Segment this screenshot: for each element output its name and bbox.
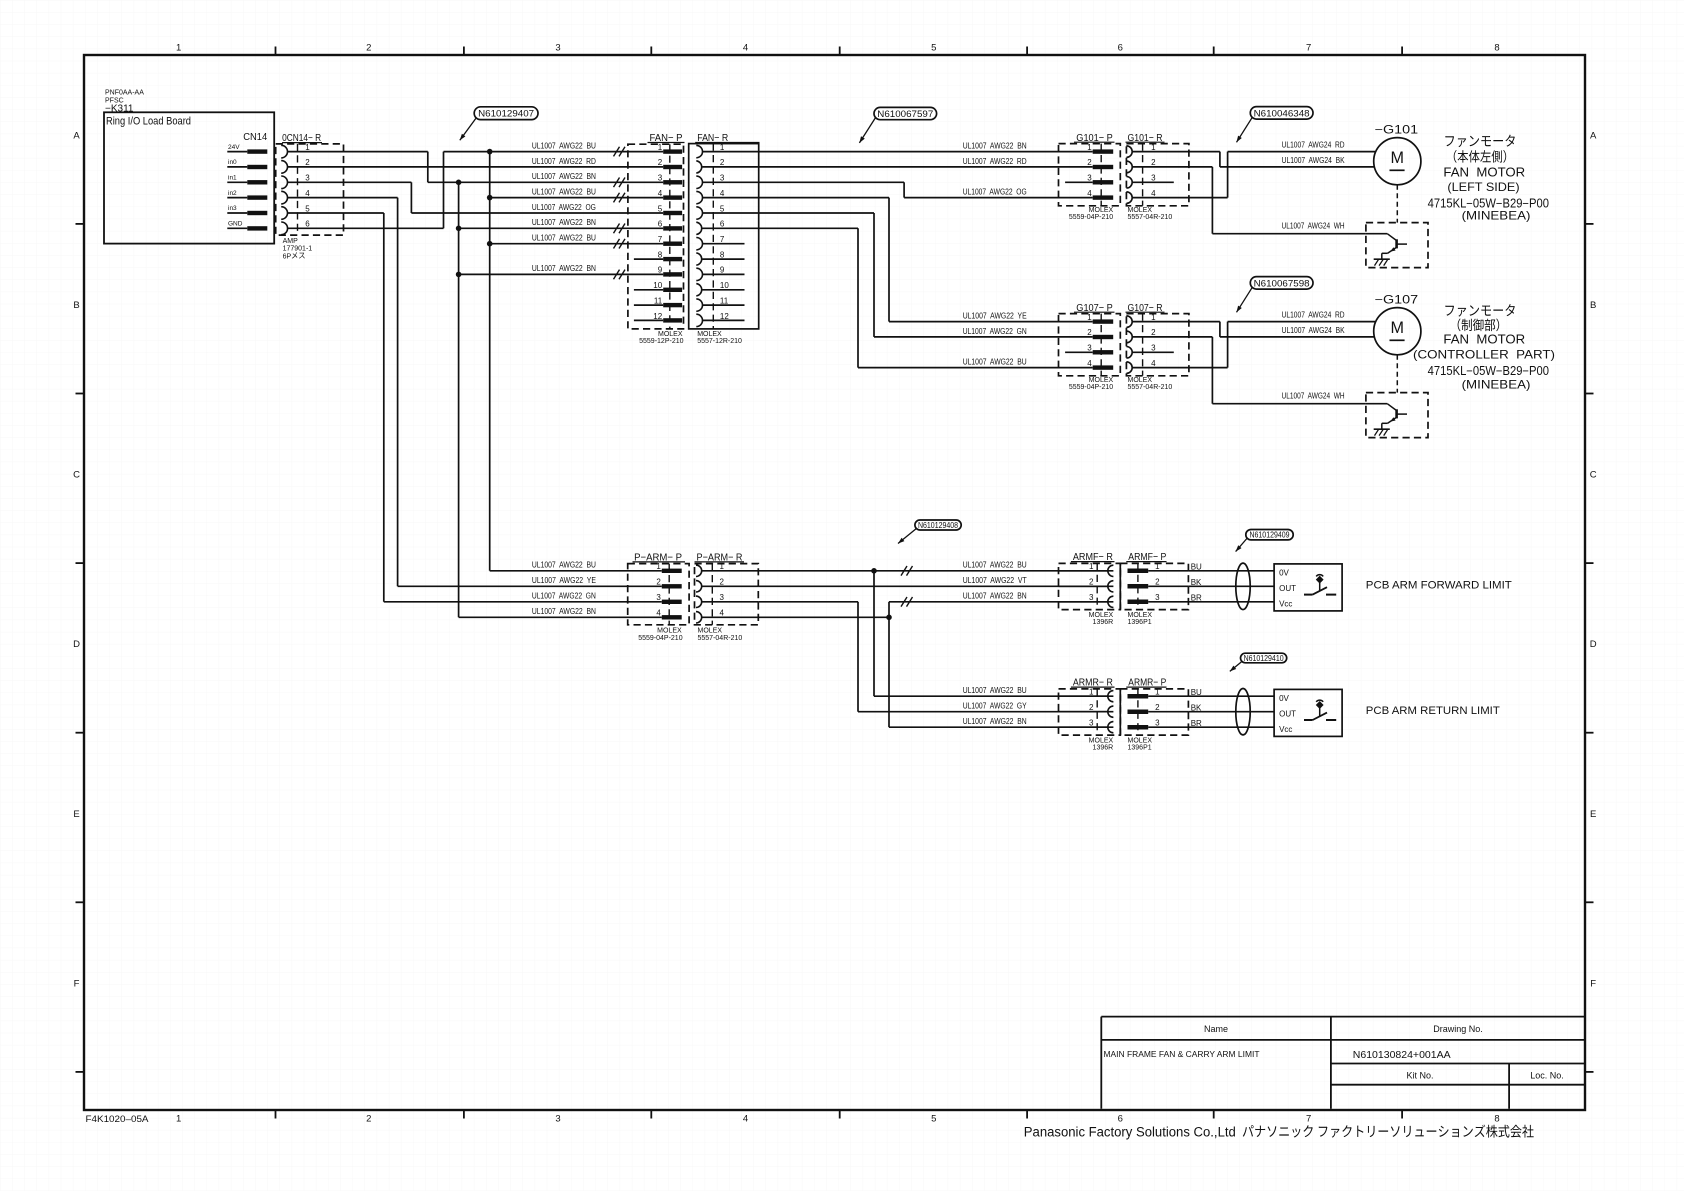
svg-text:UL1007 AWG22 VT: UL1007 AWG22 VT — [963, 576, 1027, 585]
svg-text:9: 9 — [720, 266, 725, 275]
svg-text:1: 1 — [720, 562, 725, 571]
wire FAN-R pin6 down to G107-P pin4 BU — [759, 228, 1093, 367]
svg-text:UL1007 AWG22 BU: UL1007 AWG22 BU — [963, 357, 1027, 366]
wire G107-R pin1 jog to BK — [1189, 322, 1375, 337]
svg-text:2: 2 — [658, 158, 663, 167]
wire CN14 pin1 24V to BN bus jog — [288, 152, 428, 183]
svg-text:UL1007 AWG22 RD: UL1007 AWG22 RD — [532, 157, 596, 166]
wire CN14 pin6 GND up to row1 BU — [288, 152, 664, 229]
svg-text:MOLEX: MOLEX — [1089, 612, 1114, 619]
motor G101 description text — [1428, 135, 1549, 223]
svg-text:N610129408: N610129408 — [918, 521, 958, 530]
svg-text:UL1007 AWG22 BU: UL1007 AWG22 BU — [963, 686, 1027, 695]
svg-text:AMP: AMP — [283, 238, 299, 245]
svg-text:UL1007 AWG22 GN: UL1007 AWG22 GN — [532, 592, 596, 601]
sensor box ARMF 0V OUT Vcc — [1274, 564, 1342, 611]
svg-text:3: 3 — [555, 1114, 560, 1125]
svg-text:1: 1 — [1087, 143, 1092, 152]
svg-text:MOLEX: MOLEX — [1128, 612, 1153, 619]
svg-text:UL1007 AWG22 OG: UL1007 AWG22 OG — [963, 187, 1027, 196]
svg-text:(LEFT SIDE): (LEFT SIDE) — [1447, 180, 1519, 194]
svg-text:MOLEX: MOLEX — [658, 331, 683, 338]
svg-text:5559-04P-210: 5559-04P-210 — [1069, 214, 1113, 221]
ref tag N610129409 — [1236, 530, 1294, 552]
svg-text:4: 4 — [720, 609, 725, 618]
row letters left — [73, 130, 80, 989]
svg-text:1: 1 — [176, 43, 181, 54]
svg-text:−K311: −K311 — [105, 104, 134, 115]
wire labels UL1007 AWG24 at motor G107 — [1282, 311, 1346, 401]
svg-text:6: 6 — [720, 220, 725, 229]
wire G101-R pin4 jog to RD — [1189, 152, 1375, 198]
svg-text:1: 1 — [720, 143, 725, 152]
svg-text:6: 6 — [658, 220, 663, 229]
sensor box ARMR 0V OUT Vcc — [1274, 689, 1342, 736]
svg-text:UL1007 AWG22 BN: UL1007 AWG22 BN — [963, 717, 1027, 726]
svg-text:5559-04P-210: 5559-04P-210 — [638, 635, 682, 642]
svg-text:UL1007 AWG22 BU: UL1007 AWG22 BU — [532, 187, 596, 196]
svg-text:3: 3 — [1155, 719, 1160, 728]
svg-text:FAN MOTOR: FAN MOTOR — [1443, 333, 1525, 347]
svg-text:4: 4 — [743, 43, 748, 54]
svg-text:1: 1 — [1155, 562, 1160, 571]
svg-text:24V: 24V — [228, 144, 240, 151]
svg-text:4: 4 — [305, 189, 310, 198]
cable ellipse ARMR — [1236, 689, 1250, 735]
svg-text:5557-04R-210: 5557-04R-210 — [1128, 384, 1173, 391]
svg-text:MOLEX: MOLEX — [698, 627, 723, 634]
svg-text:UL1007 AWG22 BU: UL1007 AWG22 BU — [532, 141, 596, 150]
ground in G107 box — [1374, 428, 1390, 430]
svg-text:2: 2 — [1089, 703, 1094, 712]
svg-text:UL1007 AWG22 BU: UL1007 AWG22 BU — [963, 561, 1027, 570]
wire BU bus to FAN-P pin4 — [490, 197, 664, 199]
svg-text:N610067597: N610067597 — [877, 109, 933, 120]
svg-text:5: 5 — [720, 204, 725, 213]
svg-text:5: 5 — [931, 43, 936, 54]
svg-text:7: 7 — [720, 235, 725, 244]
connector FAN-R (MOLEX 5557-12R-210) — [689, 132, 760, 345]
connector FAN-P (MOLEX 5559-12P-210) — [628, 132, 685, 345]
connector G107-P (MOLEX 5559-04P-210) — [1059, 302, 1121, 391]
svg-text:in2: in2 — [228, 190, 237, 197]
ref tag N610129408 — [898, 520, 961, 544]
svg-text:3: 3 — [1087, 344, 1092, 353]
svg-text:N610129410: N610129410 — [1244, 654, 1284, 663]
svg-text:F: F — [74, 978, 80, 989]
connector P-ARM-R (MOLEX 5557-04R-210) — [695, 551, 759, 642]
svg-text:MOLEX: MOLEX — [697, 331, 722, 338]
svg-text:UL1007 AWG22 BN: UL1007 AWG22 BN — [532, 218, 596, 227]
board -K311 Ring I/O Load Board — [104, 90, 274, 244]
svg-text:5: 5 — [658, 204, 663, 213]
svg-text:4: 4 — [743, 1114, 748, 1125]
wire BU bus to P-ARM pin1 — [490, 570, 662, 572]
connector G101-P (MOLEX 5559-04P-210) — [1059, 132, 1121, 221]
svg-text:FAN MOTOR: FAN MOTOR — [1443, 166, 1525, 180]
svg-text:2: 2 — [720, 578, 725, 587]
svg-text:(MINEBEA): (MINEBEA) — [1462, 377, 1531, 391]
svg-text:A: A — [1590, 130, 1597, 141]
svg-text:N610046348: N610046348 — [1254, 108, 1310, 119]
svg-text:UL1007 AWG22 YE: UL1007 AWG22 YE — [963, 311, 1027, 320]
svg-text:MOLEX: MOLEX — [657, 627, 682, 634]
svg-text:3: 3 — [720, 174, 725, 183]
wire CN14 pin4 to P-ARM pin2 — [398, 585, 662, 587]
svg-text:D: D — [1590, 639, 1597, 650]
svg-text:7: 7 — [658, 235, 663, 244]
limit switch symbol ARMF — [1304, 575, 1336, 595]
svg-text:3: 3 — [305, 174, 310, 183]
svg-text:2: 2 — [656, 578, 661, 587]
wire CN14 pin2 to FAN-P pin2 RD — [288, 166, 664, 168]
wire labels UL1007 AWG22 at FAN-P — [532, 141, 596, 273]
svg-text:N610067598: N610067598 — [1254, 278, 1310, 289]
svg-text:MOLEX: MOLEX — [1089, 377, 1114, 384]
svg-text:6: 6 — [1118, 1114, 1123, 1125]
svg-text:E: E — [1590, 809, 1596, 820]
svg-text:4: 4 — [1087, 359, 1092, 368]
wire CN14 pin4 down to P-ARM pin2 — [288, 198, 398, 587]
svg-text:3: 3 — [1151, 344, 1156, 353]
svg-text:OUT: OUT — [1279, 584, 1296, 593]
ref tag N610046348 — [1237, 107, 1314, 143]
svg-text:5: 5 — [305, 204, 310, 213]
wire P-ARM pin3 GN down to ARMR-R pin2 GY — [758, 602, 1113, 712]
svg-text:10: 10 — [720, 281, 729, 290]
svg-text:2: 2 — [1155, 703, 1160, 712]
svg-text:2: 2 — [1087, 158, 1092, 167]
svg-text:6: 6 — [305, 220, 310, 229]
svg-text:2: 2 — [1087, 328, 1092, 337]
svg-text:UL1007 AWG24 RD: UL1007 AWG24 RD — [1282, 311, 1345, 320]
svg-text:UL1007 AWG22 BU: UL1007 AWG22 BU — [532, 561, 596, 570]
svg-text:5557-04R-210: 5557-04R-210 — [698, 635, 743, 642]
svg-text:12: 12 — [720, 312, 729, 321]
svg-text:4: 4 — [1087, 189, 1092, 198]
svg-text:1396P1: 1396P1 — [1128, 745, 1152, 752]
wire FAN-R pin2 to G101-P pin2 RD — [759, 166, 1093, 168]
svg-text:N610129409: N610129409 — [1250, 531, 1290, 540]
svg-text:UL1007 AWG22 YE: UL1007 AWG22 YE — [532, 576, 596, 585]
svg-text:177901-1: 177901-1 — [283, 246, 313, 253]
cable crossing marks at FAN-P — [614, 147, 626, 279]
svg-text:MOLEX: MOLEX — [1128, 207, 1153, 214]
svg-text:2: 2 — [305, 158, 310, 167]
svg-text:UL1007 AWG22 BN: UL1007 AWG22 BN — [963, 592, 1027, 601]
svg-text:1: 1 — [1087, 313, 1092, 322]
svg-text:Drawing No.: Drawing No. — [1433, 1024, 1483, 1034]
wire G101-R pin2 to WH transistor — [1189, 167, 1366, 234]
BN bus vertical — [456, 180, 462, 618]
svg-text:E: E — [73, 809, 79, 820]
svg-text:2: 2 — [720, 158, 725, 167]
ground in G101 box — [1374, 258, 1390, 260]
svg-text:(MINEBEA): (MINEBEA) — [1462, 209, 1531, 223]
svg-text:UL1007 AWG24 BK: UL1007 AWG24 BK — [1282, 156, 1346, 165]
svg-text:1: 1 — [1155, 688, 1160, 697]
svg-text:7: 7 — [1306, 1114, 1311, 1125]
svg-text:in0: in0 — [228, 159, 237, 166]
svg-text:OUT: OUT — [1279, 710, 1296, 719]
wire CN14 pin5 to P-ARM pin3 — [384, 601, 662, 603]
svg-text:1: 1 — [305, 143, 310, 152]
svg-text:1396R: 1396R — [1093, 745, 1114, 752]
wire FAN-R pin3 jog to G101-P pin4 OG — [759, 182, 1093, 197]
svg-text:12: 12 — [653, 312, 662, 321]
svg-text:MOLEX: MOLEX — [1128, 377, 1153, 384]
svg-text:GND: GND — [228, 221, 243, 228]
svg-text:M: M — [1391, 318, 1405, 337]
row letters right — [1590, 130, 1597, 989]
svg-text:C: C — [1590, 470, 1597, 481]
connector G101-R (MOLEX 5557-04R-210) — [1126, 132, 1189, 221]
svg-text:UL1007 AWG22 BN: UL1007 AWG22 BN — [532, 607, 596, 616]
wire CN14 pin3 to OG jog — [288, 182, 412, 213]
ref tag N610067597 — [859, 107, 936, 142]
svg-text:N610129407: N610129407 — [478, 109, 534, 120]
wire G107-R pin4 jog to RD — [1189, 322, 1375, 368]
svg-text:7: 7 — [1306, 43, 1311, 54]
svg-text:UL1007 AWG24 WH: UL1007 AWG24 WH — [1282, 392, 1345, 401]
thermistor box of G101 (internal transistor) — [1366, 223, 1428, 268]
svg-text:MOLEX: MOLEX — [1128, 738, 1153, 745]
motor G107 description text — [1413, 304, 1555, 391]
svg-text:4: 4 — [1151, 359, 1156, 368]
svg-text:B: B — [73, 300, 79, 311]
svg-text:1: 1 — [1089, 688, 1094, 697]
svg-text:3: 3 — [1151, 174, 1156, 183]
svg-text:11: 11 — [720, 296, 729, 305]
svg-text:5557-04R-210: 5557-04R-210 — [1128, 214, 1173, 221]
connector ARMR-R (MOLEX 1396R) — [1059, 677, 1121, 752]
BU bus vertical — [487, 149, 493, 571]
svg-text:PNF0AA-AA: PNF0AA-AA — [105, 90, 144, 97]
wire P-ARM pin4 BN to branch — [758, 602, 1113, 620]
wire labels at G101-P — [963, 141, 1027, 196]
wire labels at ARMF-R — [963, 561, 1027, 601]
svg-text:MOLEX: MOLEX — [1089, 207, 1114, 214]
svg-text:−G107: −G107 — [1375, 294, 1419, 306]
ref tag N610129407 — [460, 107, 538, 141]
wire BU bus to FAN-P pin7 — [490, 243, 664, 245]
fan motor G101 — [1374, 124, 1421, 222]
wire labels at P-ARM-P — [532, 561, 596, 617]
svg-text:8: 8 — [658, 250, 663, 259]
wire row3 BN to FAN-P pin3 — [428, 181, 663, 183]
svg-text:1: 1 — [1151, 143, 1156, 152]
column numbers top — [176, 43, 1500, 54]
connector CN14 on board — [227, 132, 267, 231]
wire BN branch down to ARMR-R pin3 — [889, 617, 1113, 727]
svg-text:2: 2 — [366, 43, 371, 54]
svg-text:UL1007 AWG24 BK: UL1007 AWG24 BK — [1282, 326, 1346, 335]
limit switch symbol ARMR — [1304, 700, 1336, 720]
svg-text:(CONTROLLER PART): (CONTROLLER PART) — [1413, 347, 1555, 361]
svg-text:in1: in1 — [228, 175, 237, 182]
svg-text:MOLEX: MOLEX — [1089, 738, 1114, 745]
svg-text:Kit No.: Kit No. — [1406, 1071, 1433, 1081]
cable ellipse ARMF — [1236, 563, 1250, 609]
wire BU branch down to ARMR-R pin1 — [874, 571, 1113, 696]
svg-text:UL1007 AWG22 BU: UL1007 AWG22 BU — [532, 234, 596, 243]
svg-text:UL1007 AWG22 BN: UL1007 AWG22 BN — [963, 141, 1027, 150]
svg-text:1396R: 1396R — [1093, 619, 1114, 626]
svg-text:3: 3 — [1155, 593, 1160, 602]
svg-text:1: 1 — [176, 1114, 181, 1125]
svg-text:6: 6 — [1118, 43, 1123, 54]
connector ARMR-P (MOLEX 1396P1) — [1120, 677, 1188, 752]
svg-text:9: 9 — [658, 266, 663, 275]
svg-text:N610130824+001AA: N610130824+001AA — [1353, 1049, 1451, 1061]
wire BN bus to FAN-P pin9 — [459, 273, 664, 275]
svg-text:UL1007 AWG22 GN: UL1007 AWG22 GN — [963, 327, 1027, 336]
svg-text:2: 2 — [1155, 578, 1160, 587]
svg-text:4715KL−05W−B29−P00: 4715KL−05W−B29−P00 — [1428, 364, 1549, 378]
svg-text:Ring I/O Load Board: Ring I/O Load Board — [106, 116, 191, 128]
svg-text:6P: 6P — [283, 253, 292, 260]
svg-text:3: 3 — [658, 174, 663, 183]
svg-text:3: 3 — [1089, 719, 1094, 728]
wires ARMF to sensor with colors BU BK BR — [1188, 562, 1274, 602]
svg-text:PCB ARM FORWARD LIMIT: PCB ARM FORWARD LIMIT — [1366, 580, 1512, 592]
company name — [1024, 1125, 1534, 1140]
ref tag N610067598 — [1237, 277, 1314, 313]
svg-text:−G101: −G101 — [1375, 124, 1419, 136]
wires ARMR to sensor with colors BU BK BR — [1188, 688, 1274, 728]
wire G101-R pin1 jog to BK — [1189, 152, 1375, 167]
ref tag N610129410 — [1230, 653, 1287, 671]
svg-text:3: 3 — [1087, 174, 1092, 183]
svg-text:Loc. No.: Loc. No. — [1530, 1071, 1564, 1081]
svg-text:UL1007 AWG22 OG: UL1007 AWG22 OG — [532, 203, 596, 212]
svg-text:1396P1: 1396P1 — [1128, 619, 1152, 626]
svg-text:3: 3 — [555, 43, 560, 54]
svg-text:10: 10 — [653, 281, 662, 290]
connector ARMF-P (MOLEX 1396P1) — [1120, 551, 1188, 626]
title block — [1101, 1017, 1585, 1109]
wire BN bus to FAN-P pin6 — [459, 227, 664, 229]
svg-text:UL1007 AWG22 GY: UL1007 AWG22 GY — [963, 702, 1028, 711]
svg-text:4: 4 — [656, 609, 661, 618]
svg-text:2: 2 — [366, 1114, 371, 1125]
connector G107-R (MOLEX 5557-04R-210) — [1126, 302, 1189, 391]
wire BN bus to P-ARM pin4 — [459, 616, 662, 618]
wire FAN-R pin4 down to G107-P pin1 YE — [759, 198, 1093, 322]
svg-text:3: 3 — [720, 593, 725, 602]
cable crossing marks at ARMF — [901, 566, 913, 607]
column numbers bottom — [176, 1114, 1500, 1125]
svg-text:B: B — [1590, 300, 1596, 311]
svg-text:F4K1020‒05A: F4K1020‒05A — [86, 1114, 149, 1124]
svg-text:in3: in3 — [228, 205, 237, 212]
svg-text:1: 1 — [1151, 313, 1156, 322]
svg-text:M: M — [1391, 148, 1405, 167]
svg-text:8: 8 — [1494, 1114, 1499, 1125]
svg-text:Name: Name — [1204, 1024, 1228, 1034]
wire labels UL1007 AWG24 at motor G101 — [1282, 141, 1346, 231]
wire FAN-R pin1 to G101-P pin1 BN — [759, 151, 1093, 153]
svg-text:1: 1 — [656, 562, 661, 571]
wire P-ARM pin1 BU to ARMF-R pin1 — [758, 568, 1113, 574]
svg-text:A: A — [73, 130, 80, 141]
wire CN14 pin5 down to P-ARM pin3 — [288, 213, 384, 602]
svg-text:D: D — [73, 639, 80, 650]
svg-text:8: 8 — [720, 250, 725, 259]
svg-text:Vcc: Vcc — [1279, 600, 1292, 609]
svg-text:PCB ARM RETURN LIMIT: PCB ARM RETURN LIMIT — [1366, 705, 1500, 717]
svg-text:2: 2 — [1151, 158, 1156, 167]
svg-text:3: 3 — [656, 593, 661, 602]
svg-text:Vcc: Vcc — [1279, 725, 1292, 734]
wire row5 OG to FAN-P pin5 — [411, 212, 663, 214]
connector 0CN14-R (AMP 177901-1) — [276, 133, 344, 260]
wire labels at ARMR-R — [963, 686, 1028, 726]
svg-text:1: 1 — [1089, 562, 1094, 571]
wire FAN-R pin5 down to G107-P pin2 GN — [759, 213, 1093, 337]
svg-text:0V: 0V — [1279, 694, 1289, 703]
svg-text:UL1007 AWG22 RD: UL1007 AWG22 RD — [963, 157, 1027, 166]
svg-text:UL1007 AWG22 BN: UL1007 AWG22 BN — [532, 172, 596, 181]
svg-text:MAIN FRAME FAN & CARRY ARM LIM: MAIN FRAME FAN & CARRY ARM LIMIT — [1104, 1050, 1260, 1059]
svg-text:4: 4 — [1151, 189, 1156, 198]
svg-text:UL1007 AWG24 RD: UL1007 AWG24 RD — [1282, 141, 1345, 150]
thermistor box of G107 (internal transistor) — [1366, 393, 1428, 438]
svg-text:2: 2 — [1089, 578, 1094, 587]
svg-text:4: 4 — [658, 189, 663, 198]
svg-text:2: 2 — [1151, 328, 1156, 337]
wire G107-R pin2 to WH transistor — [1189, 337, 1366, 404]
svg-text:5559-12P-210: 5559-12P-210 — [639, 338, 683, 345]
fan motor G107 — [1374, 294, 1421, 392]
wire labels at G107-P — [963, 311, 1027, 366]
svg-text:1: 1 — [658, 143, 663, 152]
svg-text:F: F — [1590, 978, 1596, 989]
connector P-ARM-P (MOLEX 5559-04P-210) — [628, 551, 689, 642]
svg-text:5: 5 — [931, 1114, 936, 1125]
svg-text:UL1007 AWG24 WH: UL1007 AWG24 WH — [1282, 222, 1345, 231]
svg-text:UL1007 AWG22 BN: UL1007 AWG22 BN — [532, 264, 596, 273]
svg-text:Panasonic Factory Solutions Co: Panasonic Factory Solutions Co.,Ltd — [1024, 1125, 1236, 1140]
svg-text:11: 11 — [654, 296, 663, 305]
svg-text:8: 8 — [1494, 43, 1499, 54]
svg-text:4: 4 — [720, 189, 725, 198]
svg-text:C: C — [73, 470, 80, 481]
svg-text:3: 3 — [1089, 593, 1094, 602]
svg-text:5557-12R-210: 5557-12R-210 — [697, 338, 742, 345]
wire P-ARM pin2 YE to ARMF-R pin2 VT — [758, 585, 1113, 587]
connector ARMF-R (MOLEX 1396R) — [1059, 551, 1121, 626]
svg-text:0V: 0V — [1279, 569, 1289, 578]
svg-text:5559-04P-210: 5559-04P-210 — [1069, 384, 1113, 391]
svg-text:CN14: CN14 — [243, 132, 267, 143]
